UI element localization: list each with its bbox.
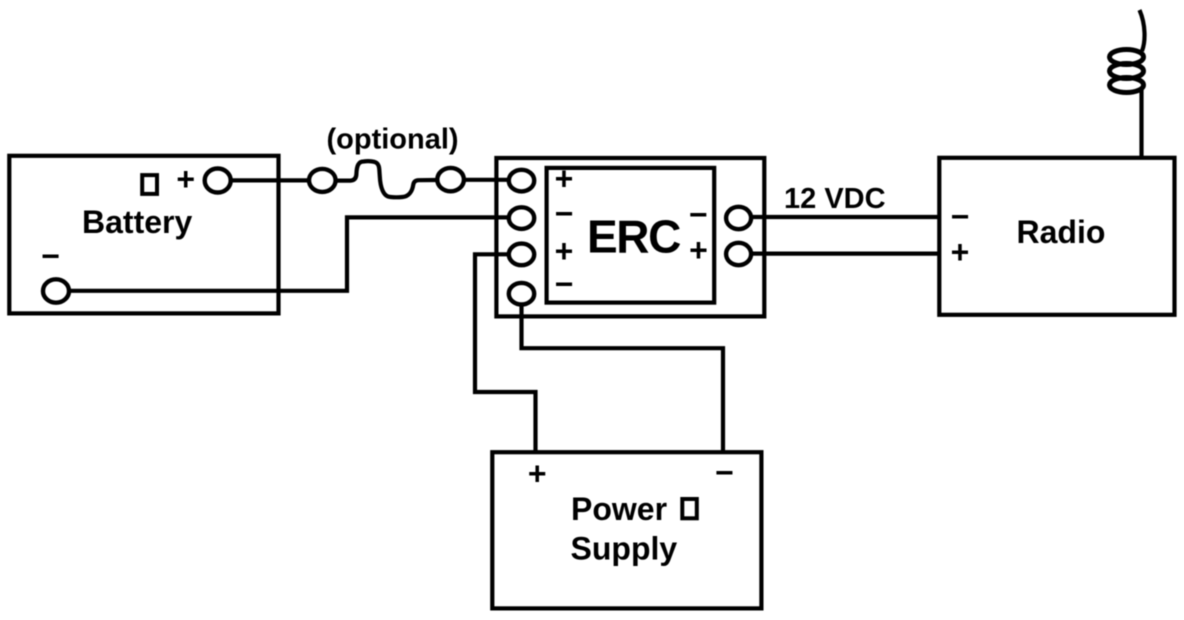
svg-text:Radio: Radio bbox=[1017, 214, 1106, 250]
svg-text:12 VDC: 12 VDC bbox=[784, 183, 886, 215]
svg-text:+: + bbox=[951, 234, 970, 270]
svg-text:+: + bbox=[555, 161, 574, 197]
svg-text:−: − bbox=[41, 238, 60, 274]
svg-text:+: + bbox=[555, 233, 574, 269]
svg-text:Power: Power bbox=[571, 491, 667, 527]
svg-text:Supply: Supply bbox=[571, 531, 678, 567]
svg-text:ERC: ERC bbox=[587, 211, 680, 263]
svg-text:−: − bbox=[689, 197, 708, 233]
svg-text:(optional): (optional) bbox=[327, 124, 459, 156]
svg-text:+: + bbox=[689, 232, 708, 268]
svg-text:+: + bbox=[176, 161, 195, 197]
svg-text:+: + bbox=[528, 456, 547, 492]
svg-text:−: − bbox=[555, 196, 574, 232]
svg-text:−: − bbox=[951, 199, 970, 235]
svg-text:−: − bbox=[715, 455, 734, 491]
svg-text:−: − bbox=[555, 266, 574, 302]
svg-text:Battery: Battery bbox=[82, 204, 192, 240]
